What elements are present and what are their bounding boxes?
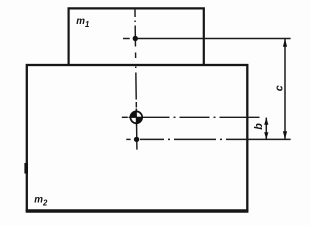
wire: short dash left of CG bbox=[122, 116, 128, 118]
node: bottom attachment point dot bbox=[134, 137, 139, 142]
svg-text:c: c bbox=[274, 85, 286, 91]
wire: centre line from CG to dimension b (dash-dot) bbox=[144, 116, 272, 118]
rectangle m2 (lower mass) bbox=[27, 65, 248, 210]
centre of gravity symbol bbox=[129, 110, 145, 126]
wire: centre line from bottom dot to dimension c (dash-dot) bbox=[140, 138, 291, 140]
dimension line b bbox=[253, 118, 268, 140]
wire: vertical center line (dash-dot), upper part bbox=[135, 9, 136, 108]
rectangle m1 (upper mass) bbox=[69, 8, 204, 65]
wire: vertical center line through CG and bottom point bbox=[135, 109, 138, 150]
bottom edge of m2 slightly thicker bbox=[26, 210, 249, 213]
wire: short dash left of bottom dot bbox=[126, 138, 130, 140]
svg-text:b: b bbox=[253, 123, 265, 130]
dimension line c bbox=[274, 39, 288, 139]
wire: extension line from top dot to dimension c bbox=[138, 38, 291, 40]
node: top attachment point dot bbox=[133, 36, 138, 41]
scan blob on m2 left edge bbox=[24, 163, 28, 174]
wire: short dash left of top dot bbox=[123, 38, 130, 40]
